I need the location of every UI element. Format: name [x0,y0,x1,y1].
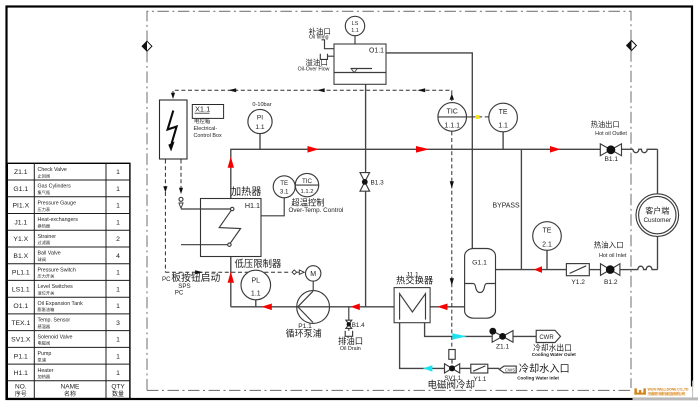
svg-text:过滤器: 过滤器 [38,239,51,246]
svg-text:电控箱: 电控箱 [194,117,211,125]
svg-text:1: 1 [116,353,120,360]
boundary marker left [142,41,152,51]
svg-text:Cooling Water Oulet: Cooling Water Oulet [532,352,576,357]
svg-text:Z1.1: Z1.1 [14,169,28,176]
svg-text:2: 2 [116,236,120,243]
svg-text:CWS: CWS [505,367,515,372]
svg-text:循环泵浦: 循环泵浦 [286,327,322,338]
pressure switch PL 1.1 [235,258,283,307]
svg-text:O1.1: O1.1 [13,303,28,310]
svg-text:溢油口: 溢油口 [305,57,328,67]
control wire TIC to SV1.1 (dashed) [450,131,454,349]
svg-text:换热器: 换热器 [38,223,51,230]
controller TIC 1.1.2 [289,173,344,213]
system boundary (dash-dot) [147,11,631,390]
svg-text:QTY: QTY [111,383,125,390]
svg-text:1: 1 [116,270,120,277]
svg-text:PC: PC [162,276,171,283]
svg-text:1: 1 [116,286,120,293]
CWR tag [532,330,576,357]
svg-text:Hot oil Inlet: Hot oil Inlet [599,253,627,259]
O1.1 overflow port [298,54,334,73]
svg-text:1.1.1: 1.1.1 [444,122,460,129]
CWS tag [499,362,570,381]
flow arrow return 2 [351,304,360,311]
control wire TIC to X1.1 (dashed) [171,88,454,101]
svg-text:Control Box: Control Box [194,133,222,139]
svg-text:排油口: 排油口 [338,336,363,346]
svg-text:Strainer: Strainer [38,234,57,240]
svg-text:PL1.1: PL1.1 [12,270,30,277]
legend table [7,163,130,398]
svg-text:Pressure Gauge: Pressure Gauge [38,201,77,207]
svg-text:2.1: 2.1 [542,241,552,248]
strainer Y1.2 [566,264,589,287]
svg-text:BYPASS: BYPASS [493,203,520,210]
strainer Y1.1 [471,364,488,383]
svg-text:J1.1: J1.1 [14,219,27,226]
wire return pipe (pump line) [231,257,465,307]
svg-text:Over-Temp. Control: Over-Temp. Control [289,207,344,214]
level switch LS 1.1 [345,16,364,44]
svg-text:H1.1: H1.1 [245,201,260,210]
svg-text:1: 1 [116,169,120,176]
control wire X1.1 to heater element (dashed) [163,160,183,273]
svg-text:止回阀: 止回阀 [38,172,51,179]
flexible hose to customer (outlet) [633,149,658,152]
logo text [647,388,689,396]
svg-text:Hot oil Outlet: Hot oil Outlet [595,131,627,137]
flow arrow cooling outlet (cyan) [452,333,467,339]
svg-text:Oil Drain: Oil Drain [340,346,361,352]
svg-text:电磁阀冷却: 电磁阀冷却 [428,379,476,391]
svg-text:Ball Valve: Ball Valve [38,251,61,257]
svg-text:Y1.X: Y1.X [13,236,28,243]
svg-text:压力开关: 压力开关 [38,273,55,280]
svg-text:G1.1: G1.1 [13,186,28,193]
svg-text:1: 1 [116,219,120,226]
svg-text:Customer: Customer [643,217,672,224]
svg-text:热油出口: 热油出口 [591,120,620,129]
svg-text:TE: TE [280,180,288,187]
svg-text:膨胀油箱: 膨胀油箱 [38,306,55,313]
svg-text:PI: PI [257,115,263,122]
svg-text:G1.1: G1.1 [472,260,487,267]
logo plate [633,381,698,403]
wire main supply pipe [231,149,633,198]
svg-text:Oil-Over Flow: Oil-Over Flow [298,67,330,73]
svg-text:M: M [310,271,316,278]
solenoid valve SV1.1 [428,350,476,391]
svg-text:数量: 数量 [112,390,124,398]
svg-text:Solenoid Valve: Solenoid Valve [38,334,73,340]
ball valve B1.1 [591,120,628,163]
customer circle [636,194,679,237]
svg-text:热交换器: 热交换器 [396,275,434,286]
temp sensor TE 1.1 [489,103,518,149]
flow arrow return 1 [262,304,272,311]
svg-text:Temp. Sensor: Temp. Sensor [38,318,71,324]
svg-text:泵浦: 泵浦 [38,356,46,363]
svg-text:LS: LS [352,21,359,27]
svg-text:低压限制器: 低压限制器 [235,258,283,269]
svg-text:0-10bar: 0-10bar [252,102,271,108]
temp sensor TE 3.1 [261,176,295,216]
svg-text:Oil Expansion Tank: Oil Expansion Tank [38,301,84,307]
wire O1.1 to G1.1 [386,53,472,249]
svg-text:Level Switches: Level Switches [38,284,74,290]
svg-text:4: 4 [116,253,120,260]
flow arrow supply 2 [416,146,429,153]
wire customer return drop [657,237,659,270]
wire hot oil inlet pipe [496,269,630,271]
svg-text:Z1.1: Z1.1 [496,344,510,351]
electrical control box X1.1 [160,100,188,159]
svg-text:球阀: 球阀 [38,256,46,263]
svg-text:3.1: 3.1 [280,189,289,196]
ball valve B1.3 [360,173,384,192]
flow arrow return 3 [437,304,447,311]
svg-text:TE: TE [499,109,508,116]
svg-text:NO.: NO. [15,383,27,390]
svg-text:加热器: 加热器 [38,373,51,380]
oil expansion tank O1.1 [334,44,386,84]
svg-text:PL: PL [252,277,261,284]
svg-text:1.1: 1.1 [351,28,359,34]
svg-text:Oil filling: Oil filling [309,35,329,41]
svg-text:PC: PC [175,290,184,297]
svg-text:Check Valve: Check Valve [38,167,67,173]
svg-text:Pump: Pump [38,351,52,357]
svg-text:TE: TE [543,228,552,235]
svg-text:P1.1: P1.1 [14,353,28,360]
svg-text:B1.4: B1.4 [352,322,365,329]
check valve Z1.1 [489,328,513,351]
motor M [306,266,321,291]
svg-text:SV1.X: SV1.X [11,337,31,344]
svg-text:冷却水入口: 冷却水入口 [519,362,570,375]
svg-text:1: 1 [116,186,120,193]
temp sensor TE 2.1 [533,222,562,270]
svg-text:无锡威尔顿机械设备有限公司: 无锡威尔顿机械设备有限公司 [647,391,686,396]
svg-text:1: 1 [116,303,120,310]
svg-text:1: 1 [116,370,120,377]
svg-text:B1.X: B1.X [13,253,28,260]
wire bypass [520,149,522,269]
wire expansion tank drop (O1.1 to return) [365,84,367,306]
svg-text:1: 1 [116,337,120,344]
svg-text:CWR: CWR [539,335,554,341]
svg-text:序号: 序号 [15,390,27,398]
wire cooling water inlet [400,323,500,369]
wire customer supply drop [657,149,659,194]
boundary marker right [627,41,637,51]
ball valve B1.4 (oil drain) [338,307,365,352]
svg-text:O1.1: O1.1 [369,48,384,55]
svg-text:集气瓶: 集气瓶 [38,189,51,196]
svg-text:NAME: NAME [61,383,80,390]
flow arrow supply 1 [308,146,320,153]
svg-text:电磁阀: 电磁阀 [38,340,51,347]
svg-text:Y1.1: Y1.1 [474,376,487,383]
svg-text:客户端: 客户端 [645,205,669,215]
flexible hose from customer (inlet) [630,266,658,269]
svg-text:Heater: Heater [38,368,54,374]
svg-text:名称: 名称 [64,390,76,398]
svg-text:加热器: 加热器 [231,185,262,198]
svg-text:TEX.1: TEX.1 [11,320,30,327]
control link TIC-TE with node [472,115,489,119]
logo mark [634,388,646,394]
flow arrow heater bottom riser [228,272,234,283]
svg-text:1.1: 1.1 [498,123,508,130]
svg-text:Y1.2: Y1.2 [571,279,585,286]
svg-text:B1.2: B1.2 [604,279,618,286]
node SPS PC label [162,271,220,297]
svg-text:热油入口: 热油入口 [594,240,624,250]
svg-text:TIC: TIC [302,178,312,185]
svg-text:H1.1: H1.1 [14,370,29,377]
svg-text:PI1.X: PI1.X [12,203,29,210]
svg-text:Pressure Switch: Pressure Switch [38,267,76,273]
svg-text:液位开关: 液位开关 [38,289,55,296]
heat exchanger J1.1 [394,271,434,322]
control wire SPS to motor (dashed) [165,270,304,275]
svg-text:1.1: 1.1 [251,290,261,297]
svg-text:感温器: 感温器 [38,323,51,330]
flow arrow inlet pipe [534,266,542,273]
ball valve B1.2 [594,240,627,287]
svg-text:X1.1: X1.1 [195,105,210,114]
svg-text:TIC: TIC [447,108,458,115]
O1.1 oil filling port [308,26,334,49]
X1.1 label box [192,105,223,140]
gas cylinder G1.1 [465,249,496,319]
flow arrow supply 3 [550,146,561,153]
svg-text:压力表: 压力表 [38,206,51,213]
controller TIC 1.1.1 [438,103,472,132]
svg-text:Gas Cylinders: Gas Cylinders [38,184,72,190]
flow arrow heater riser [228,157,234,168]
pressure gauge PI 1.1 [248,102,272,149]
svg-text:B1.1: B1.1 [605,156,619,163]
svg-text:Electrical-: Electrical- [194,126,218,132]
svg-text:LS1.1: LS1.1 [12,286,30,293]
pump P1.1 [286,291,330,339]
svg-text:B1.3: B1.3 [371,180,385,187]
node BYPASS label [493,203,520,210]
svg-text:1.1: 1.1 [255,124,264,131]
svg-text:1: 1 [116,203,120,210]
heater H1.1 [181,185,262,257]
svg-text:Heat-exchangers: Heat-exchangers [38,217,79,223]
svg-text:1.1.2: 1.1.2 [301,189,314,195]
svg-text:3: 3 [116,320,120,327]
legend texts [11,169,120,377]
wire cooling water outlet [425,323,537,337]
svg-text:Cooling Water Inlet: Cooling Water Inlet [517,376,559,381]
flow arrow cooling inlet (cyan) [423,365,433,371]
